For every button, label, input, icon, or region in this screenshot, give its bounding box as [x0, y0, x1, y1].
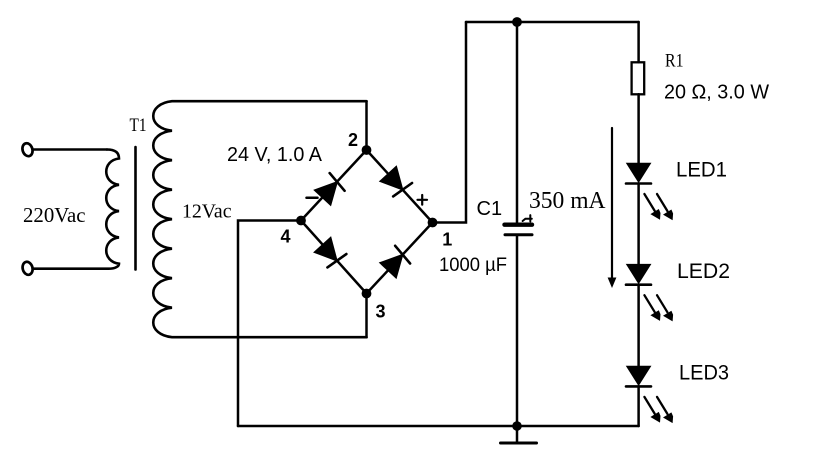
wire bridge edge 4-2 — [301, 150, 367, 221]
wire top rail — [466, 21, 639, 24]
diode D4 (edge 3 to 1) — [380, 246, 412, 278]
svg-text:R1: R1 — [665, 51, 684, 72]
svg-text:1000 µF: 1000 µF — [439, 255, 507, 276]
current arrow 350 mA — [608, 128, 617, 288]
svg-text:LED2: LED2 — [677, 260, 730, 283]
ground — [501, 426, 537, 443]
LED3 — [626, 367, 651, 387]
wire node 4 to left drop — [238, 221, 301, 427]
LED3 emission arrows — [644, 397, 673, 423]
wire R1 to LED1 — [637, 94, 640, 163]
LED1 — [626, 164, 651, 184]
transformer core — [134, 147, 137, 270]
svg-text:T1: T1 — [130, 115, 147, 136]
resistor R1 body — [632, 62, 645, 94]
wire secondary top to node 2 — [365, 101, 368, 150]
wire bridge edge 3-1 — [367, 223, 433, 294]
diode D3 (edge 4 to 3) — [314, 237, 346, 269]
svg-text:24 V, 1.0 A: 24 V, 1.0 A — [227, 144, 323, 166]
capacitor C1 plus mark — [523, 215, 532, 221]
terminal bottom-left — [21, 261, 34, 276]
svg-text:350 mA: 350 mA — [529, 188, 606, 214]
wire C1 branch upper — [516, 22, 519, 223]
wire bridge edge 4-3 — [301, 221, 367, 294]
LED2 emission arrows — [644, 295, 673, 321]
diode D1 (edge 4 to 2) — [314, 173, 346, 205]
wire LED1 to LED2 — [637, 184, 640, 265]
minus polarity mark near node 4 — [307, 197, 318, 200]
primary winding of T1 — [34, 150, 120, 269]
svg-text:C1: C1 — [477, 198, 503, 220]
secondary winding of T1 — [153, 101, 366, 337]
wire secondary bottom to node 3 — [365, 294, 368, 338]
diode D2 (edge 2 to 1) — [380, 166, 412, 198]
node 2 junction dot — [362, 145, 372, 155]
wire top rail to R1 — [637, 22, 640, 62]
wire node 1 to riser — [433, 22, 467, 223]
LED1 emission arrows — [644, 194, 673, 220]
svg-text:12Vac: 12Vac — [182, 201, 232, 223]
svg-text:1: 1 — [442, 230, 452, 250]
plus polarity mark near node 1 — [418, 195, 428, 205]
svg-text:20 Ω, 3.0 W: 20 Ω, 3.0 W — [664, 82, 769, 104]
svg-text:3: 3 — [376, 302, 386, 322]
svg-text:2: 2 — [348, 130, 358, 150]
junction dot top rail / C1 — [512, 17, 522, 27]
LED2 — [626, 265, 651, 285]
node 3 junction dot — [362, 289, 372, 299]
wire LED3 to bottom rail — [637, 386, 640, 426]
wire LED2 to LED3 — [637, 285, 640, 367]
wire bridge edge 2-1 — [367, 150, 433, 223]
svg-text:LED3: LED3 — [679, 361, 729, 384]
svg-text:220Vac: 220Vac — [23, 203, 86, 227]
wire bottom rail — [238, 425, 639, 428]
svg-text:LED1: LED1 — [676, 158, 727, 181]
wire C1 branch lower — [516, 236, 519, 426]
wire top terminal to primary — [34, 148, 108, 151]
node 4 junction dot — [296, 216, 306, 226]
capacitor C1 bottom plate — [505, 233, 532, 236]
node 1 junction dot — [428, 218, 438, 228]
svg-text:4: 4 — [281, 227, 291, 247]
capacitor C1 top plate — [505, 222, 533, 226]
terminal top-left — [21, 142, 34, 158]
junction dot bottom rail / ground — [512, 421, 522, 431]
